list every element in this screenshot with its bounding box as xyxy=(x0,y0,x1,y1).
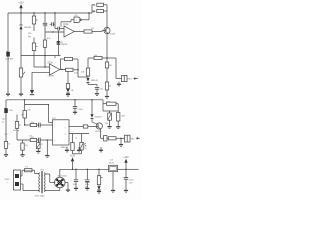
svg-text:1: 1 xyxy=(76,20,77,22)
svg-text:D7: D7 xyxy=(41,144,43,146)
svg-text:R6: R6 xyxy=(93,11,95,13)
svg-text:1k: 1k xyxy=(8,144,10,146)
svg-text:7: 7 xyxy=(54,121,55,123)
svg-text:+12V: +12V xyxy=(123,157,129,159)
svg-text:230V: 230V xyxy=(5,179,10,181)
svg-text:B40C1500: B40C1500 xyxy=(58,176,67,178)
svg-text:1N4148: 1N4148 xyxy=(94,117,102,119)
svg-text:+12V: +12V xyxy=(70,156,76,158)
svg-text:R5: R5 xyxy=(93,5,95,7)
svg-text:+12V: +12V xyxy=(18,2,24,4)
svg-text:47k: 47k xyxy=(91,28,94,30)
svg-text:10k: 10k xyxy=(105,123,108,125)
svg-text:4: 4 xyxy=(65,134,66,136)
svg-text:LDR R9: LDR R9 xyxy=(5,58,14,60)
svg-text:1N4148: 1N4148 xyxy=(61,44,67,46)
svg-text:2: 2 xyxy=(54,126,55,128)
svg-text:3: 3 xyxy=(54,141,55,143)
svg-text:IC1a: IC1a xyxy=(64,24,70,26)
svg-text:100n: 100n xyxy=(78,109,82,111)
svg-text:2x6V 1VA5: 2x6V 1VA5 xyxy=(35,194,46,197)
svg-text:IC3: IC3 xyxy=(110,159,113,161)
svg-text:100k: 100k xyxy=(74,73,78,75)
svg-text:6: 6 xyxy=(65,128,66,130)
svg-text:D9: D9 xyxy=(84,148,86,150)
svg-text:78L12: 78L12 xyxy=(109,163,114,165)
svg-text:100u: 100u xyxy=(129,180,133,182)
svg-text:1N4148: 1N4148 xyxy=(91,80,99,82)
svg-text:1k: 1k xyxy=(75,138,77,140)
svg-text:100n: 100n xyxy=(73,184,77,186)
svg-text:IC1b: IC1b xyxy=(48,62,54,64)
svg-text:LDR: LDR xyxy=(9,110,14,112)
svg-text:4n7: 4n7 xyxy=(29,136,32,138)
svg-text:1N4148: 1N4148 xyxy=(24,27,32,29)
svg-text:IC1c: IC1c xyxy=(74,15,78,17)
svg-text:10k: 10k xyxy=(94,55,97,57)
svg-text:47n: 47n xyxy=(44,26,47,28)
svg-text:25k log: 25k log xyxy=(13,130,19,132)
svg-text:LM393: LM393 xyxy=(48,76,55,78)
svg-text:CA3140: CA3140 xyxy=(61,146,68,149)
svg-text:4k7: 4k7 xyxy=(5,134,8,136)
svg-text:BC548: BC548 xyxy=(109,34,116,36)
svg-text:47k: 47k xyxy=(25,145,28,147)
svg-text:10u: 10u xyxy=(100,89,103,91)
svg-text:BC548: BC548 xyxy=(95,131,102,133)
